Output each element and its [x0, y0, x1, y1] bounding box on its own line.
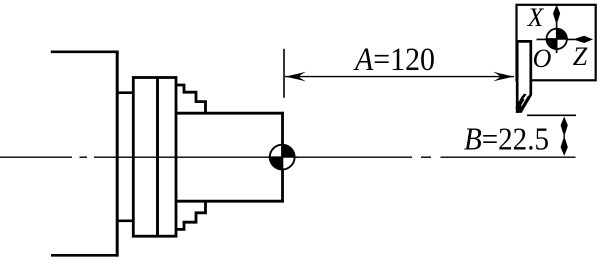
A dimension line: [285, 76, 514, 78]
tool holder shank: [517, 41, 531, 111]
Z axis arrowhead (right): [576, 36, 593, 43]
centerline segment 3 (long dash through chuck and workpiece): [94, 156, 412, 158]
centerline segment 5 (long dash, B reference): [441, 156, 576, 158]
chuck back-plate divider: [156, 78, 159, 237]
bottom jaw steps: [176, 201, 206, 229]
workpiece top edge: [176, 112, 284, 115]
B dimension top arrowhead (points up): [561, 117, 568, 134]
workpiece end-face datum symbol (circle with quadrants): [268, 144, 298, 171]
tool-tip level reference line: [527, 114, 576, 116]
centerline segment 1 (spindle axis long dash): [0, 156, 72, 158]
centerline segment 4 (short dash): [421, 156, 431, 158]
svg-text:B=22.5: B=22.5: [464, 122, 549, 157]
B dimension bottom arrowhead (points down): [561, 139, 568, 156]
headstock right edge: [116, 51, 119, 257]
workpiece end face (right edge): [281, 112, 284, 203]
tool insert (black cutting tip): [515, 94, 530, 113]
spindle nose stub top: [117, 91, 135, 94]
headstock top edge: [51, 50, 118, 53]
svg-text:Z: Z: [573, 42, 588, 71]
headstock bottom edge: [51, 254, 118, 257]
svg-text:A=120: A=120: [353, 42, 435, 78]
tool origin symbol O (circle with quadrants): [546, 28, 569, 53]
top jaw steps: [176, 85, 206, 113]
coordinate-system box: [517, 5, 596, 81]
Z axis line: [537, 38, 587, 40]
A dimension right arrowhead: [493, 72, 514, 82]
spindle nose stub bottom: [117, 220, 135, 223]
A dimension left arrowhead: [285, 72, 306, 82]
svg-text:X: X: [527, 3, 545, 32]
X axis arrowhead (up): [553, 5, 560, 22]
chuck outline: [133, 78, 176, 237]
X axis line: [556, 12, 558, 53]
svg-text:O: O: [533, 44, 552, 73]
workpiece bottom edge: [176, 200, 284, 203]
centerline segment 2 (short dash): [80, 156, 88, 158]
B dimension line: [563, 118, 565, 154]
A dimension extension line: [283, 49, 285, 98]
